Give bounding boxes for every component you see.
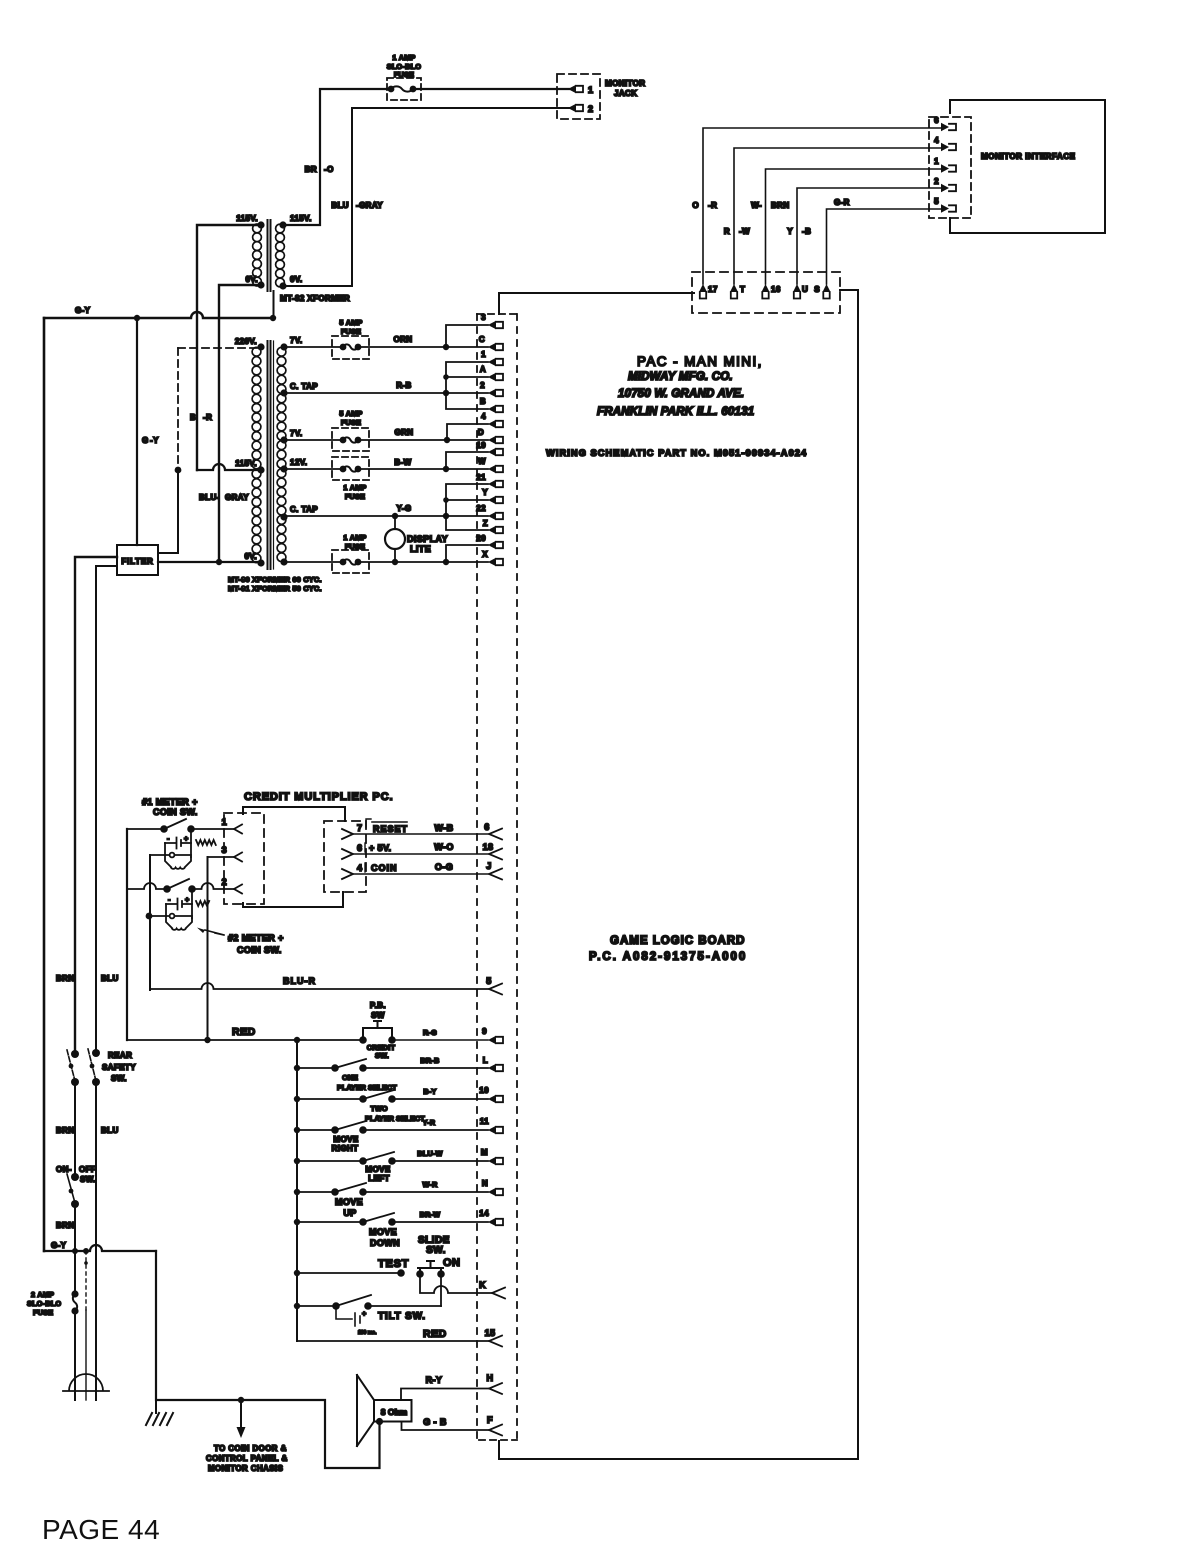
svg-text:R: R	[724, 227, 730, 236]
wire 12V to fuse	[284, 468, 343, 470]
svg-text:-R: -R	[203, 413, 212, 422]
fuse 1 AMP (B-W)	[332, 457, 369, 480]
test wire	[297, 1272, 401, 1274]
wire 7V #2 to fuse	[284, 439, 343, 441]
svg-text:C: C	[479, 335, 485, 344]
pin Y	[488, 496, 496, 504]
wire G-Y horizontal	[44, 312, 273, 318]
wire RED	[127, 1039, 363, 1041]
svg-text:MT-80 XFORMER 60 CYC.: MT-80 XFORMER 60 CYC.	[228, 575, 322, 584]
pin A	[488, 373, 496, 381]
meter #1 coil resistor	[196, 840, 216, 845]
pin 14	[488, 1218, 496, 1226]
transformer MT-80 core	[268, 341, 271, 569]
pin N	[488, 1188, 496, 1196]
svg-text:100 ms.: 100 ms.	[358, 1330, 377, 1336]
meter #2 solenoid	[166, 916, 192, 930]
svg-text:DOWN: DOWN	[370, 1238, 400, 1248]
svg-text:7V.: 7V.	[290, 429, 302, 438]
svg-text:RED: RED	[232, 1026, 256, 1038]
svg-text:RESET: RESET	[373, 824, 408, 834]
AC plug	[63, 1374, 109, 1391]
meter #2 coil resistor	[196, 901, 209, 906]
pin U	[793, 284, 801, 292]
pin S	[823, 284, 831, 292]
display lite lamp	[394, 516, 396, 562]
svg-text:0V.: 0V.	[245, 552, 257, 561]
wire to pin 4	[447, 424, 488, 440]
svg-text:11: 11	[480, 1117, 489, 1126]
svg-text:2: 2	[588, 104, 593, 114]
transformer MT-80 primary winding	[252, 347, 261, 356]
svg-text:7: 7	[357, 823, 362, 833]
wire GRN	[358, 439, 488, 441]
transformer MT-82 secondary winding	[276, 224, 285, 233]
wire 0V line filter to transformer	[158, 561, 261, 563]
svg-text:+: +	[362, 1309, 367, 1318]
svg-text:-B: -B	[802, 227, 811, 236]
wire to pins 1,A,B	[446, 362, 488, 409]
transformer MT-80 secondary winding	[277, 347, 286, 356]
coin switch #2	[167, 879, 189, 889]
svg-text:B-Y: B-Y	[423, 1087, 436, 1096]
pin 20	[488, 541, 496, 549]
wire fuse to monitor jack 1	[413, 88, 569, 90]
svg-text:P.B.: P.B.	[370, 1001, 386, 1010]
svg-text:FUSE: FUSE	[394, 70, 414, 79]
svg-text:B: B	[480, 397, 486, 406]
node 220V dashed junction	[177, 348, 179, 470]
pin T	[730, 284, 738, 292]
svg-text:17: 17	[708, 285, 718, 294]
wire R-W	[734, 148, 941, 284]
wire BLU filter input	[96, 566, 117, 1053]
svg-text:T: T	[740, 285, 745, 294]
wire BRN filter input	[75, 557, 117, 1053]
svg-text:16: 16	[771, 285, 781, 294]
svg-text:2 AMP: 2 AMP	[31, 1290, 54, 1299]
wire slide to pin K	[420, 1274, 492, 1293]
pin 10	[488, 1095, 496, 1103]
monitor interface pin 4	[941, 143, 949, 151]
switch bus vertical	[296, 1040, 298, 1341]
wire BR-O: MT-82 115V right up to fuse	[283, 89, 391, 225]
game logic board edge connector dashed rails	[476, 314, 478, 1440]
pin 17	[699, 284, 707, 292]
RESET row	[342, 829, 353, 839]
wire B-W	[358, 468, 488, 470]
wire ORN	[358, 346, 488, 348]
svg-text:UP: UP	[343, 1208, 356, 1218]
wire slide to tilt row	[440, 1274, 442, 1306]
svg-text:BLU-R: BLU-R	[283, 976, 316, 986]
svg-text:+: +	[184, 834, 189, 843]
svg-text:3: 3	[222, 845, 227, 855]
filter box	[117, 545, 158, 575]
svg-text:PAGE 44: PAGE 44	[42, 1514, 160, 1545]
svg-text:COIN SW.: COIN SW.	[153, 807, 198, 817]
svg-text:PLAYER SELECT: PLAYER SELECT	[337, 1083, 397, 1092]
svg-text:S: S	[814, 285, 820, 294]
svg-text:Y-R: Y-R	[423, 1118, 436, 1127]
svg-text:115V.: 115V.	[236, 214, 258, 223]
wire plug ground dashed	[85, 1251, 87, 1310]
speaker horn	[357, 1375, 374, 1446]
speaker magnet 8 Ohm	[374, 1400, 412, 1422]
move up switch	[297, 1183, 488, 1192]
svg-text:BR-W: BR-W	[420, 1210, 441, 1219]
svg-text:Z: Z	[483, 519, 488, 528]
svg-text:U: U	[802, 285, 808, 294]
svg-text:TO COIN DOOR &: TO COIN DOOR &	[214, 1444, 287, 1453]
wire G-Y down to filter	[136, 318, 138, 545]
wire to pins 21,Y,Z	[446, 484, 488, 530]
pin D	[488, 436, 496, 444]
svg-text:SAFETY: SAFETY	[102, 1063, 136, 1072]
svg-text:-: -	[168, 895, 171, 904]
svg-text:ON-: ON-	[56, 1165, 72, 1174]
svg-text:SLO-BLO: SLO-BLO	[27, 1299, 62, 1308]
svg-text:MOVE: MOVE	[365, 1165, 390, 1174]
svg-text:FUSE: FUSE	[345, 542, 365, 551]
monitor jack pin 1	[568, 85, 576, 93]
svg-text:#2 METER +: #2 METER +	[228, 933, 284, 943]
transformer MT-80 primary taps	[257, 343, 264, 350]
svg-text:-: -	[167, 834, 170, 843]
transformer MT-82 core	[268, 220, 271, 291]
svg-text:12V.: 12V.	[290, 458, 307, 467]
svg-text:0V.: 0V.	[290, 275, 302, 284]
svg-text:BRN: BRN	[56, 974, 75, 983]
fuse 2 AMP SLO-BLO	[71, 1290, 78, 1297]
svg-text:-W: -W	[739, 227, 750, 236]
svg-text:W-B: W-B	[434, 823, 453, 833]
wire 7V to fuse	[284, 346, 343, 348]
wire MT-82 frame to G-Y	[273, 291, 275, 318]
svg-text:F: F	[487, 1415, 493, 1425]
pin W	[488, 465, 496, 473]
monitor interface pin 5	[941, 204, 949, 212]
svg-text:BRN: BRN	[771, 201, 790, 210]
svg-text:8 Ohm: 8 Ohm	[381, 1407, 408, 1417]
wire MT-82 0V left to 0V tap vertical	[219, 285, 261, 562]
slide switch	[416, 1270, 424, 1278]
svg-text:1: 1	[481, 350, 486, 359]
svg-text:115V.: 115V.	[235, 459, 257, 468]
svg-text:MT-82 XFORMER: MT-82 XFORMER	[280, 294, 350, 303]
svg-text:TEST: TEST	[378, 1258, 409, 1270]
svg-text:ON: ON	[443, 1257, 461, 1269]
svg-text:-Y: -Y	[150, 436, 159, 445]
svg-text:PLAYER SELECT: PLAYER SELECT	[365, 1114, 425, 1123]
credit PC pin 3	[208, 856, 235, 858]
pin C	[488, 343, 496, 351]
svg-text:SW.: SW.	[80, 1175, 96, 1184]
move left switch	[297, 1152, 488, 1161]
pin B	[488, 405, 496, 413]
svg-text:0V.: 0V.	[246, 275, 258, 284]
wire 220V dashed option	[178, 347, 258, 349]
svg-text:FUSE: FUSE	[33, 1308, 53, 1317]
move right switch	[297, 1121, 488, 1130]
wire filter to 115V junction	[158, 470, 178, 553]
svg-text:COIN: COIN	[371, 863, 398, 873]
svg-text:7V.: 7V.	[290, 336, 302, 345]
svg-text:GRAY: GRAY	[225, 493, 249, 502]
svg-text:BRN: BRN	[56, 1126, 75, 1135]
two player select switch	[297, 1090, 488, 1099]
svg-text:WIRING SCHEMATIC PART NO. M051: WIRING SCHEMATIC PART NO. M051-00934-A02…	[546, 448, 807, 458]
svg-text:FILTER: FILTER	[121, 557, 153, 566]
wire R-Y to pin H	[401, 1389, 489, 1401]
svg-text:G-Y: G-Y	[75, 306, 91, 315]
svg-text:2: 2	[934, 177, 939, 186]
on-off switch	[71, 1173, 79, 1181]
svg-text:BR-B: BR-B	[420, 1056, 439, 1065]
svg-text:4: 4	[481, 412, 486, 421]
svg-text:COIN SW.: COIN SW.	[237, 945, 282, 955]
monitor interface pin 1	[941, 164, 949, 172]
wire G-R	[827, 209, 942, 284]
monitor jack pin 2	[568, 104, 576, 112]
svg-text:CREDIT MULTIPLIER PC.: CREDIT MULTIPLIER PC.	[244, 791, 393, 803]
wire 12V to pin X	[358, 561, 488, 563]
svg-text:5: 5	[934, 197, 939, 206]
fuse 5 AMP (GRN)	[332, 428, 369, 451]
meter #1 solenoid	[165, 855, 191, 869]
pin X	[488, 558, 496, 566]
svg-text:Y: Y	[482, 488, 488, 497]
ground symbol	[146, 1400, 173, 1425]
monitor interface pin 6	[941, 123, 949, 131]
svg-text:JACK: JACK	[614, 89, 637, 98]
svg-text:R-G: R-G	[423, 1028, 437, 1037]
credit PC pin 1	[191, 828, 234, 830]
svg-text:W-O: W-O	[434, 842, 454, 852]
fuse 1 AMP SLO-BLO (monitor)	[387, 78, 421, 100]
svg-text:BRN: BRN	[56, 1221, 75, 1230]
svg-text:2: 2	[480, 381, 485, 390]
svg-text:18: 18	[483, 842, 494, 852]
coin switch #1	[127, 819, 186, 829]
pin M	[488, 1157, 496, 1165]
svg-text:FUSE: FUSE	[345, 492, 365, 501]
monitor interface box	[950, 100, 1105, 233]
svg-text:RIGHT: RIGHT	[332, 1144, 359, 1153]
svg-text:BLU: BLU	[101, 974, 119, 983]
svg-text:LITE: LITE	[410, 544, 431, 554]
svg-text:1: 1	[222, 817, 227, 827]
svg-text:TILT SW.: TILT SW.	[378, 1311, 426, 1322]
svg-text:W-: W-	[751, 201, 762, 210]
wire pin3 down to RED	[207, 857, 209, 1040]
svg-text:D: D	[478, 428, 484, 437]
svg-text:6: 6	[484, 822, 489, 832]
svg-text:MONITOR CHASIS: MONITOR CHASIS	[208, 1464, 283, 1473]
tilt switch	[297, 1295, 441, 1306]
svg-text:PAC - MAN MINI,: PAC - MAN MINI,	[637, 354, 763, 369]
wire BRN mid	[74, 1082, 76, 1177]
svg-text:#1 METER +: #1 METER +	[142, 797, 198, 807]
COIN row	[342, 869, 353, 879]
svg-text:-GRAY: -GRAY	[356, 201, 383, 210]
svg-text:SW: SW	[371, 1011, 385, 1020]
monitor interface pin 2	[941, 184, 949, 192]
svg-text:X: X	[482, 550, 488, 559]
svg-text:A: A	[480, 365, 486, 374]
svg-text:MOVE: MOVE	[369, 1227, 397, 1237]
svg-text:L: L	[483, 1056, 488, 1065]
game board top connector box	[692, 272, 840, 313]
wire G-B to pin F	[402, 1422, 490, 1431]
svg-text:P.C. A082-91375-A000: P.C. A082-91375-A000	[589, 951, 747, 963]
svg-text:2: 2	[222, 877, 227, 887]
wire meter bus down to RED	[126, 829, 128, 1040]
svg-text:-O: -O	[324, 165, 334, 174]
svg-text:W: W	[478, 457, 486, 466]
wire R-B: C.TAP row	[284, 392, 488, 394]
monitor jack connector box	[557, 74, 600, 119]
svg-text:4: 4	[357, 863, 362, 873]
svg-text:GRN: GRN	[395, 428, 414, 437]
svg-text:ONE: ONE	[342, 1073, 358, 1082]
svg-text:10: 10	[479, 1086, 489, 1095]
wire 12V #2 to fuse	[284, 561, 343, 563]
svg-text:C. TAP: C. TAP	[290, 505, 318, 514]
wire Y-G: C.TAP #2 row	[284, 515, 488, 517]
svg-text:5 AMP: 5 AMP	[339, 409, 362, 418]
svg-text:C. TAP: C. TAP	[290, 382, 318, 391]
svg-text:FUSE: FUSE	[341, 418, 361, 427]
svg-text:BLU: BLU	[101, 1126, 119, 1135]
svg-text:G - B: G - B	[423, 1417, 447, 1427]
game logic board outline	[499, 293, 694, 314]
svg-text:+: +	[185, 895, 190, 904]
wire left ground bus	[43, 318, 46, 1251]
wire BLU lower	[95, 1082, 97, 1400]
wire R-G to pin 9	[392, 1039, 488, 1041]
transformer MT-82 primary winding	[253, 224, 262, 233]
coin switch #2 feed	[127, 883, 167, 889]
svg-text:R-B: R-B	[396, 381, 411, 390]
svg-text:FUSE: FUSE	[341, 327, 361, 336]
svg-text:CONTROL PANEL &: CONTROL PANEL &	[206, 1454, 288, 1463]
svg-text:6: 6	[357, 843, 362, 853]
pin 2	[488, 389, 496, 397]
svg-text:B-W: B-W	[394, 458, 411, 467]
pin 21	[488, 480, 496, 488]
svg-text:K: K	[479, 1280, 486, 1290]
svg-text:MONITOR INTERFACE: MONITOR INTERFACE	[981, 152, 1076, 161]
one player select switch	[297, 1059, 488, 1068]
wire G-Y bottom	[44, 1245, 156, 1251]
meter #2 NC contact	[150, 915, 192, 917]
svg-text:4: 4	[934, 136, 939, 145]
wire to pin 3	[446, 325, 488, 347]
svg-text:MOVE: MOVE	[333, 1135, 358, 1144]
wire RED bottom to pin 15	[297, 1340, 489, 1342]
svg-text:5: 5	[486, 976, 491, 986]
svg-text:MONITOR: MONITOR	[605, 79, 645, 88]
svg-text:J: J	[486, 861, 491, 871]
monitor interface connector box	[929, 117, 971, 218]
svg-text:GAME LOGIC BOARD: GAME LOGIC BOARD	[610, 935, 745, 947]
svg-text:115V.: 115V.	[290, 214, 312, 223]
svg-text:R-Y: R-Y	[426, 1375, 443, 1385]
svg-text:G: G	[142, 436, 149, 445]
svg-text:ORN: ORN	[394, 335, 413, 344]
svg-text:-R: -R	[708, 201, 717, 210]
svg-text:6: 6	[934, 116, 939, 125]
svg-text:220V.: 220V.	[235, 337, 257, 346]
meter #2 counter	[166, 899, 192, 910]
svg-text:TWO: TWO	[370, 1104, 387, 1113]
pin 19	[488, 448, 496, 456]
svg-text:W-R: W-R	[422, 1180, 438, 1189]
credit multiplier left connector	[224, 813, 264, 904]
meter #1 NC contact	[150, 854, 191, 856]
svg-text:M: M	[481, 1148, 488, 1157]
pin 9	[488, 1036, 496, 1044]
svg-text:+ 5V.: + 5V.	[369, 843, 391, 853]
svg-text:G-R: G-R	[834, 198, 850, 207]
wire Y-B	[797, 188, 941, 284]
svg-text:SW.: SW.	[375, 1051, 389, 1060]
wire BLU-R	[150, 983, 489, 989]
svg-text:5 AMP: 5 AMP	[339, 318, 362, 327]
wire W-BRN	[766, 169, 942, 284]
wire to pin 19	[446, 452, 488, 469]
svg-text:1: 1	[588, 85, 593, 95]
svg-text:REAR: REAR	[108, 1051, 132, 1060]
svg-text:1 AMP: 1 AMP	[343, 483, 366, 492]
svg-text:10750 W. GRAND AVE.: 10750 W. GRAND AVE.	[618, 388, 744, 400]
tilt switch contact weight	[336, 1306, 360, 1326]
wire NC bus to BLU-R	[149, 855, 151, 990]
svg-text:N: N	[482, 1179, 488, 1188]
fuse 5 AMP (ORN)	[332, 336, 369, 359]
wire 115V tap line	[197, 464, 261, 470]
credit PC right connector	[324, 821, 366, 892]
svg-text:FRANKLIN PARK ILL. 60131: FRANKLIN PARK ILL. 60131	[597, 406, 754, 418]
transformer MT-82 terminals	[257, 221, 264, 228]
pin 1	[488, 358, 496, 366]
wire G-Y to ground	[156, 1251, 380, 1468]
wire BRN lower	[74, 1204, 76, 1294]
svg-text:G-Y: G-Y	[51, 1241, 67, 1250]
push button credit switch	[359, 1036, 367, 1044]
meter #1 counter	[165, 838, 191, 849]
svg-text:Y-G: Y-G	[397, 504, 412, 513]
svg-text:OFF: OFF	[79, 1165, 96, 1174]
credit PC outline	[243, 807, 345, 821]
svg-text:Y: Y	[787, 227, 793, 236]
svg-text:14: 14	[479, 1209, 489, 1218]
arrow to coin door	[238, 1397, 244, 1403]
transformer MT-80 secondary taps	[280, 343, 287, 350]
svg-text:BLU: BLU	[331, 201, 349, 210]
svg-text:MOVE: MOVE	[335, 1197, 363, 1207]
svg-text:B: B	[190, 413, 196, 422]
wire BLU-GRAY: MT-82 0V right up to monitor jack 2	[283, 108, 569, 286]
pin Z	[488, 526, 496, 534]
svg-text:BLU-W: BLU-W	[417, 1149, 442, 1158]
fuse 1 AMP (12V)	[332, 550, 369, 573]
wire O-R	[703, 128, 941, 284]
svg-text:LEFT: LEFT	[368, 1174, 390, 1183]
svg-text:DISPLAY: DISPLAY	[407, 534, 448, 544]
wire MT-82 115V left to 115V tap vertical	[197, 225, 261, 470]
